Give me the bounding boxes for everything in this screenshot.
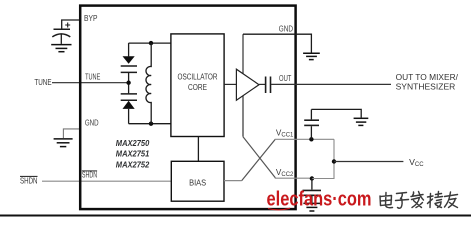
wire cap to ground arm xyxy=(311,109,361,117)
svg-text:TUNE: TUNE xyxy=(85,73,101,82)
wire diagonal B (BIAS to Vcc1) xyxy=(242,139,276,180)
ground (Vcc2 decoupling) xyxy=(303,203,320,211)
capacitor C_BYP (polarized) xyxy=(52,23,70,44)
chip outline MAX2750 xyxy=(80,6,295,210)
svg-text:SHDN: SHDN xyxy=(20,177,38,186)
varactor D2 (pointing up) xyxy=(121,93,137,95)
wire GND left pin xyxy=(63,129,80,138)
ground (BYP cap) xyxy=(51,45,71,52)
capacitor C_VCC1 (decoupling top) xyxy=(310,126,312,139)
wire OUT xyxy=(271,83,391,85)
wire to Vcc label xyxy=(334,161,403,163)
node Vcc1 junction xyxy=(309,137,313,141)
node Vcc tap xyxy=(332,159,336,163)
varactor D1 (pointing down) xyxy=(128,43,130,56)
wire GND top-right xyxy=(243,34,311,52)
inductor L1 xyxy=(146,43,151,124)
svg-text:SHDN: SHDN xyxy=(82,171,97,180)
svg-text:GND: GND xyxy=(279,25,293,34)
发 xyxy=(411,192,424,208)
电 xyxy=(380,193,393,208)
wire Vcc loop right xyxy=(312,139,334,178)
wire TUNE xyxy=(52,82,129,84)
capacitor C_VCC2 (decoupling bottom) xyxy=(311,179,313,190)
svg-text:MAX2752: MAX2752 xyxy=(116,160,150,170)
part number MAX2750 xyxy=(116,138,150,170)
node Vcc2 junction xyxy=(310,176,314,180)
svg-text:elecfans·com: elecfans·com xyxy=(267,188,372,210)
svg-text:MAX2750: MAX2750 xyxy=(116,138,150,148)
svg-text:OSCILLATOR: OSCILLATOR xyxy=(178,72,218,82)
wire diagonal A (amp branch to Vcc2) xyxy=(243,137,275,178)
svg-text:MAX2751: MAX2751 xyxy=(116,149,150,159)
ground (Vcc1 decoupling) xyxy=(354,118,369,125)
wire BIAS out xyxy=(224,180,242,182)
svg-text:BIAS: BIAS xyxy=(189,178,206,187)
svg-text:CORE: CORE xyxy=(188,82,207,92)
block OSCILLATOR CORE xyxy=(171,34,224,137)
svg-text:SYNTHESIZER: SYNTHESIZER xyxy=(396,82,456,91)
友 xyxy=(445,192,458,208)
svg-text:OUT: OUT xyxy=(279,74,291,83)
block BIAS xyxy=(171,161,224,201)
svg-text:OUT TO MIXER/: OUT TO MIXER/ xyxy=(396,73,459,82)
wire Vcc1 xyxy=(275,138,334,140)
svg-text:TUNE: TUNE xyxy=(34,78,52,87)
ground (left GND pin) xyxy=(54,139,73,147)
svg-text:BYP: BYP xyxy=(84,14,98,23)
wire vertical behind amp (GND branch / bias branch) xyxy=(242,34,244,137)
node TUNE junction xyxy=(126,81,130,85)
svg-text:GND: GND xyxy=(85,119,99,128)
wire Vcc2 xyxy=(275,177,312,179)
wire OSC to BIAS xyxy=(197,137,199,162)
wire amp to cap xyxy=(259,83,265,85)
wire OSC out to amp xyxy=(224,83,236,85)
separator line xyxy=(0,215,471,217)
capacitor C_OUT (coupling) xyxy=(265,77,267,94)
wire SHDN xyxy=(42,180,171,182)
node: tank bottom rail xyxy=(129,123,171,125)
烧 xyxy=(428,192,443,208)
op-amp buffer (output amplifier) xyxy=(236,69,259,100)
wire BYP pin to external cap xyxy=(62,20,80,29)
ground (top right GND pin) xyxy=(303,53,320,59)
子 xyxy=(396,193,409,209)
watermark chinese 电子发烧友 xyxy=(380,192,458,209)
node: tank top rail xyxy=(129,42,171,44)
